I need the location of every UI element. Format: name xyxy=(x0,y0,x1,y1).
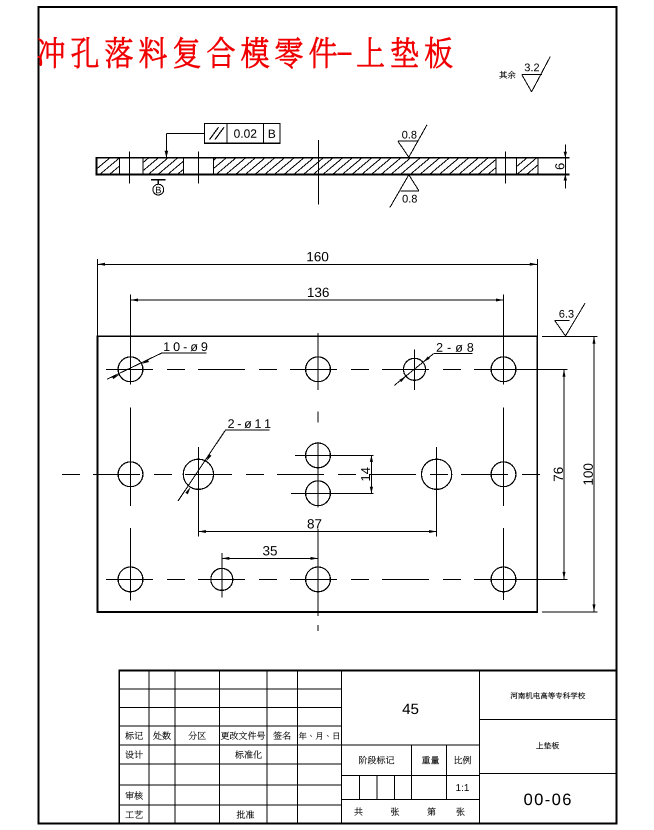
label 10-Ø9 with leader xyxy=(164,342,207,351)
dimension 14 xyxy=(370,455,372,493)
section hole centerline 2 xyxy=(197,152,199,184)
cell 处数 xyxy=(153,732,170,740)
row 3 centerline xyxy=(106,578,528,580)
dimension 160 xyxy=(97,259,99,337)
label 2-Ø8 with leader xyxy=(437,343,474,352)
hole d9 #5 xyxy=(491,462,516,487)
hole d9 #7 xyxy=(306,481,331,506)
roughness 6.3 xyxy=(559,310,573,318)
dimension 136 xyxy=(130,294,132,384)
hole d11 #1 (left) xyxy=(183,459,213,489)
dimension 76 xyxy=(516,368,568,370)
cell 分区 xyxy=(189,731,206,739)
middle block horizontals xyxy=(342,744,480,746)
part name 上垫板 xyxy=(536,742,559,749)
cell 标记 xyxy=(125,732,142,740)
hole d9 #10 xyxy=(491,567,516,592)
drawing number 00-06 xyxy=(524,794,571,806)
cell 年、月、日 xyxy=(299,732,339,740)
row 1 centerline xyxy=(106,368,528,370)
section view plate left end xyxy=(96,157,98,176)
roughness 0.8 (bottom surface) xyxy=(403,195,417,203)
dimension 100 xyxy=(542,335,597,337)
middle block verticals xyxy=(479,671,481,824)
cell 更改文件号 xyxy=(221,732,265,740)
scale 1:1 xyxy=(456,784,469,791)
cell 工艺 xyxy=(126,811,143,819)
cell 重量 xyxy=(422,756,439,764)
column centerline x=413 (hole 2-d8 top) xyxy=(414,349,416,390)
section center axis line xyxy=(318,140,320,204)
dimension 6 (plate thickness) xyxy=(564,144,566,188)
hole d11 #2 (right) xyxy=(422,459,452,489)
section hole wall lines xyxy=(118,158,120,175)
center hole upper centerline xyxy=(295,454,374,456)
school name 河南机电高等专科学校 xyxy=(511,692,586,699)
material text 45 xyxy=(403,704,419,714)
section view plate bottom edge xyxy=(97,174,570,176)
small cells dividers xyxy=(359,776,361,800)
column centerline big hole left xyxy=(197,447,199,537)
hole d9 #4 xyxy=(118,462,143,487)
leader from tolerance frame to plate xyxy=(166,132,204,134)
hole d9 #1 xyxy=(118,357,143,382)
cell 标准化 xyxy=(235,750,261,758)
dimension 87 xyxy=(198,531,436,533)
section hole centerline 3 xyxy=(504,152,506,184)
hole d8 #2 (bottom row) xyxy=(211,568,233,590)
cell 比例 xyxy=(455,756,471,764)
hole d8 #1 (top row) xyxy=(404,358,426,380)
cell 共张第张 xyxy=(354,808,362,816)
column centerline x=318 xyxy=(317,333,319,390)
left table vertical lines xyxy=(148,671,150,824)
title text (red): 冲孔落料复合模零件-上垫板 xyxy=(38,37,336,69)
title block outer xyxy=(119,671,616,824)
section view plate top edge xyxy=(97,157,570,159)
cell 阶段标记 xyxy=(359,756,394,764)
dimension 35 xyxy=(222,557,318,559)
column centerline big hole right xyxy=(436,447,438,537)
left table horizontal lines xyxy=(119,688,341,690)
cell 设计 xyxy=(126,751,143,759)
label 2-Ø11 with leader xyxy=(228,419,270,428)
parallelism tolerance frame // 0.02 B xyxy=(205,123,281,143)
section hole centerline 1 xyxy=(129,152,131,184)
cell 签名 xyxy=(273,732,290,740)
cell 批准 xyxy=(237,810,254,818)
roughness 0.8 (top surface) xyxy=(402,131,416,139)
hole d9 #2 xyxy=(306,357,331,382)
cell 审核 xyxy=(126,791,143,799)
hole d9 #6 xyxy=(306,443,331,468)
hole d9 #9 xyxy=(306,567,331,592)
right block horizontals xyxy=(480,719,617,721)
column centerline x=221.8 xyxy=(221,553,223,597)
general roughness note 其余 3.2 xyxy=(499,71,515,79)
plate outline (top view) xyxy=(98,336,538,612)
center hole lower centerline xyxy=(291,492,374,494)
hole d9 #8 xyxy=(118,567,143,592)
hole d9 #3 xyxy=(491,357,516,382)
datum B symbol xyxy=(151,179,166,181)
row 2 centerline xyxy=(62,473,552,475)
